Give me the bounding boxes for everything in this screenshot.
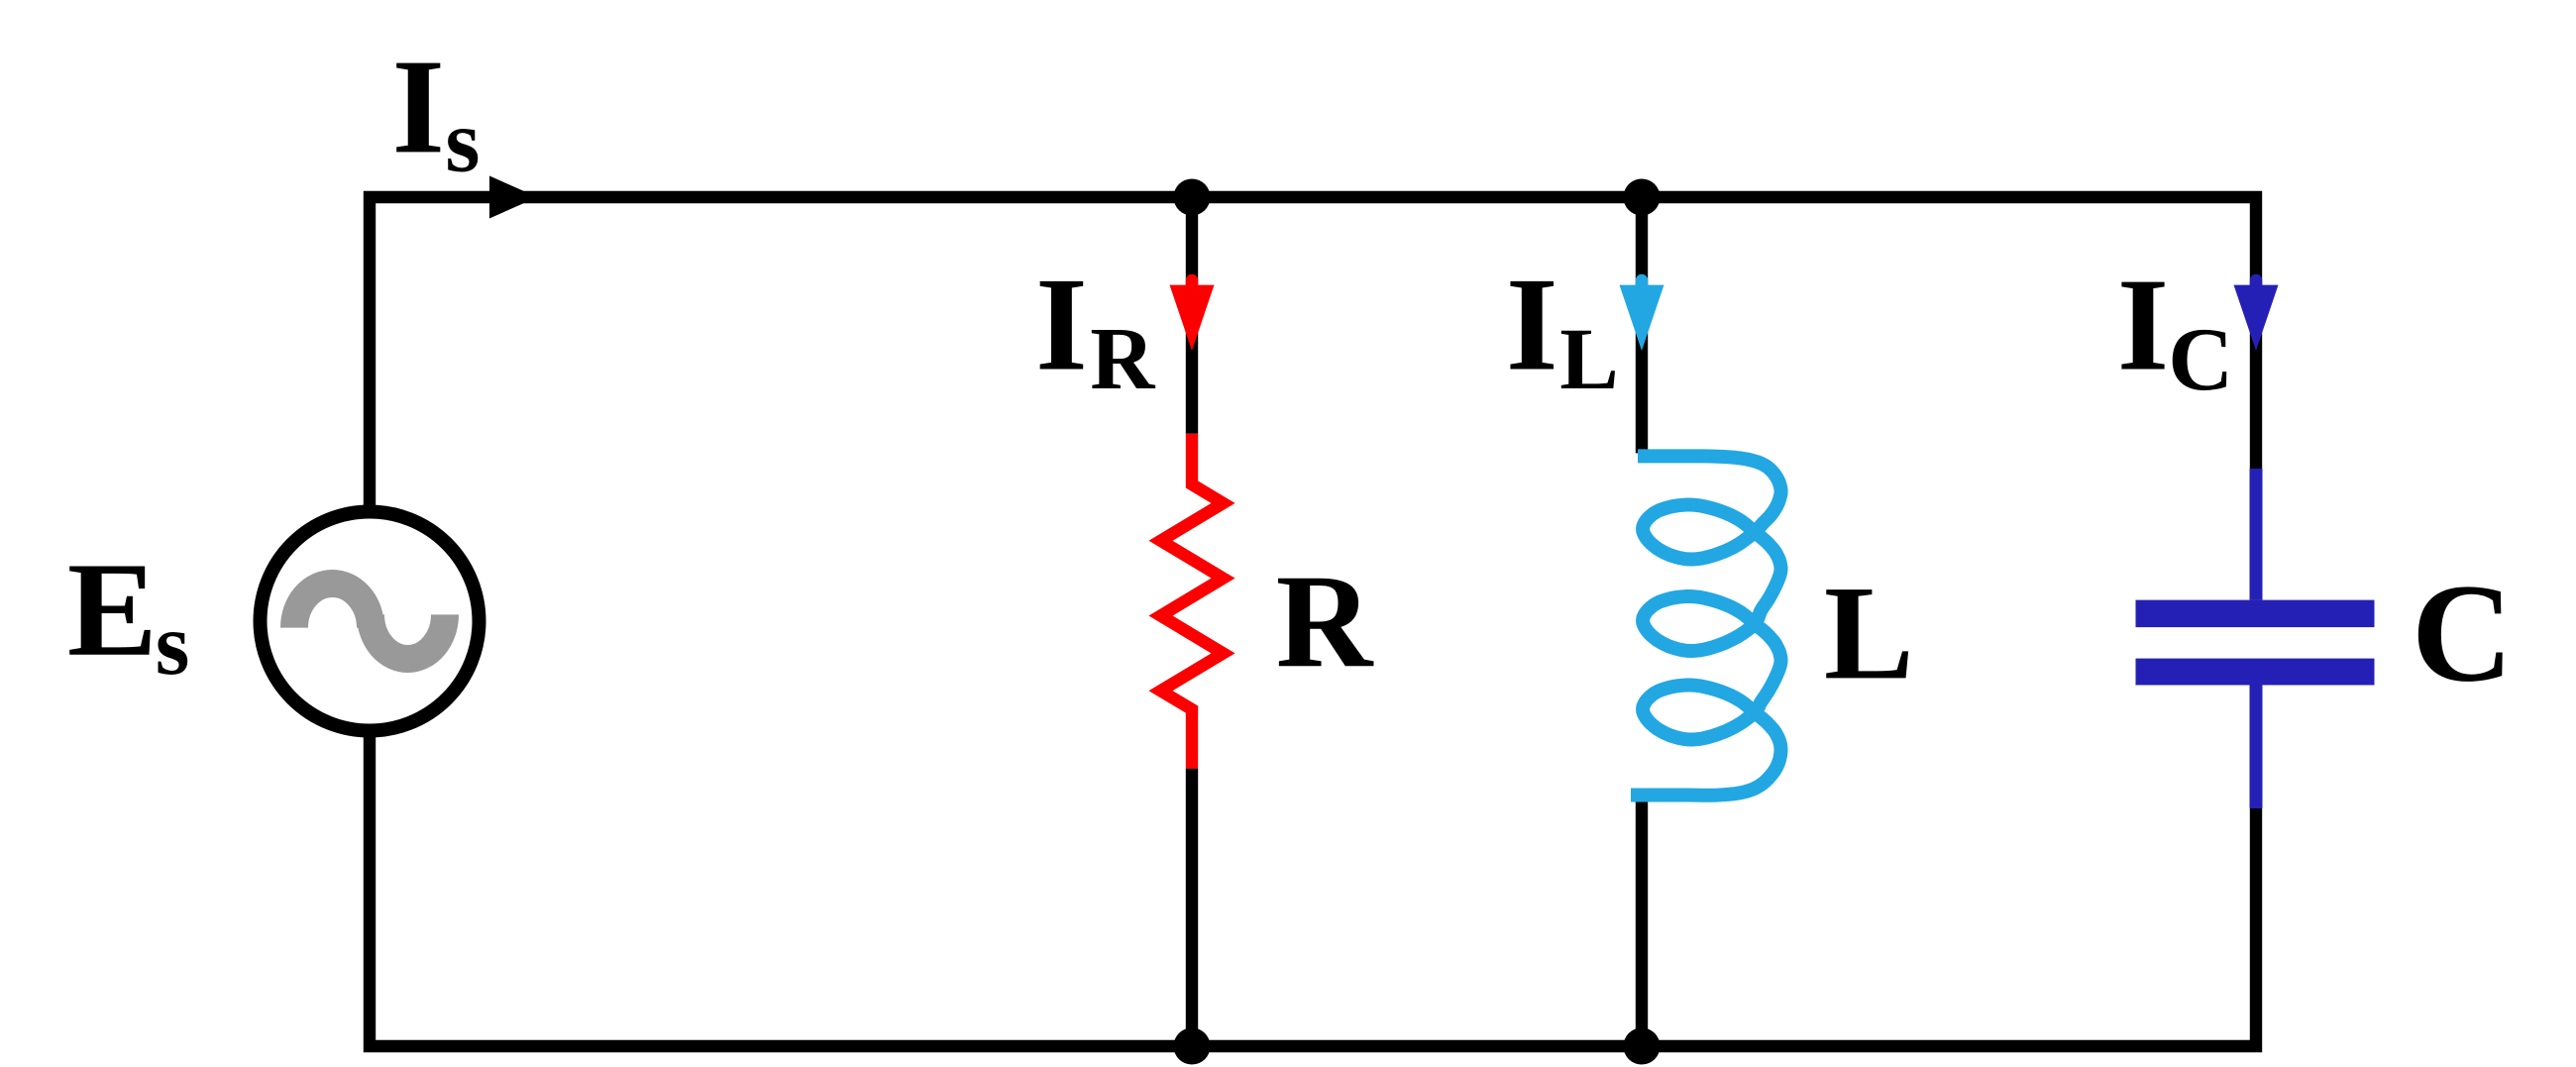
svg-text:L: L (1824, 559, 1914, 707)
svg-text:L: L (1559, 311, 1619, 408)
svg-text:R: R (1276, 548, 1374, 695)
svg-text:s: s (156, 596, 190, 694)
svg-text:R: R (1090, 309, 1155, 408)
svg-text:I: I (1035, 251, 1088, 399)
svg-text:C: C (2412, 555, 2514, 711)
svg-text:s: s (445, 91, 480, 190)
svg-text:I: I (1506, 251, 1558, 399)
svg-text:I: I (2117, 252, 2169, 399)
svg-text:E: E (67, 536, 158, 685)
svg-text:I: I (392, 31, 445, 181)
svg-text:C: C (2168, 309, 2233, 409)
